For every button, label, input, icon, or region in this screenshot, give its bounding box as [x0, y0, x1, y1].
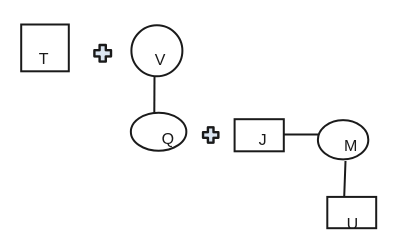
- node T (square): [21, 25, 69, 72]
- svg-text:T: T: [39, 51, 49, 68]
- operator plus 2: [203, 127, 218, 142]
- node U (rectangle): [327, 197, 376, 233]
- wire M to U: [344, 161, 345, 197]
- svg-text:M: M: [344, 138, 357, 155]
- node Q (ellipse): [131, 113, 187, 151]
- node J (rectangle): [235, 119, 284, 151]
- wire V to Q: [153, 76, 155, 113]
- svg-text:U: U: [347, 216, 359, 233]
- svg-text:Q: Q: [162, 131, 174, 148]
- node M (ellipse): [318, 120, 368, 159]
- svg-text:J: J: [259, 132, 267, 149]
- wire J to M: [284, 134, 318, 136]
- operator plus 1: [94, 45, 111, 62]
- node V (circle): [131, 25, 182, 76]
- svg-text:V: V: [155, 52, 166, 69]
